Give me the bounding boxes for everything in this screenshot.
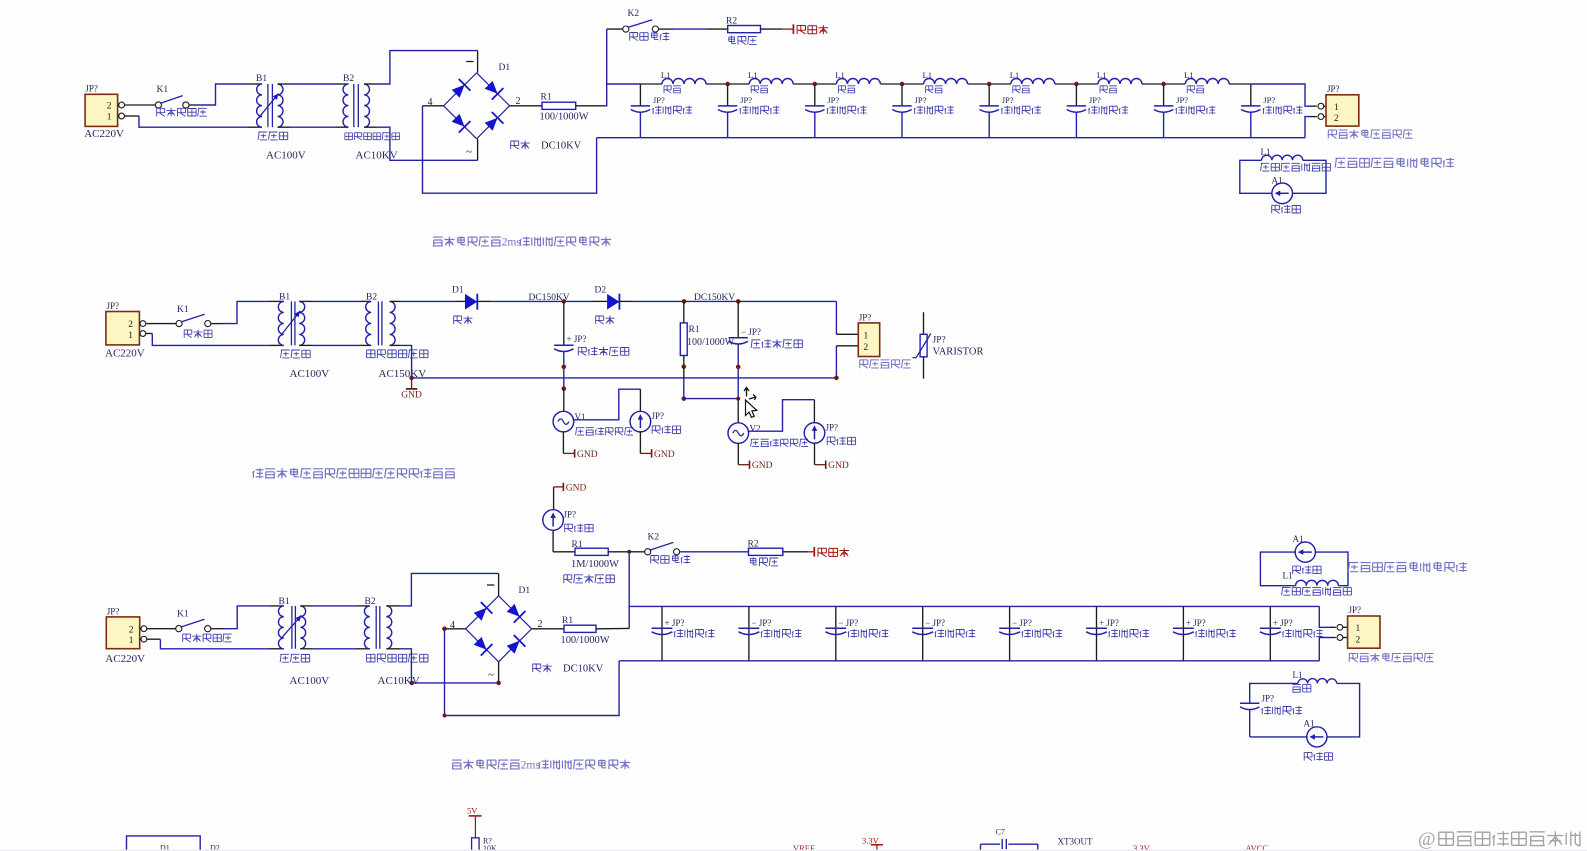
wire V1 to ammeter xyxy=(574,389,641,420)
wire to K2 xyxy=(629,551,645,553)
wire divider vertical to chain xyxy=(628,552,630,629)
wire B1 to B2 xyxy=(299,300,312,302)
wire JP? pin2 to K1 xyxy=(147,628,176,630)
bridge rectifier D1 (silicon stack DC10KV) xyxy=(444,73,477,106)
wire to V1 xyxy=(563,378,565,389)
svg-text:B2: B2 xyxy=(366,293,377,303)
pulse capacitor JP? (section1 cell 1) xyxy=(639,84,641,106)
pulse capacitor JP? (section1 cell 2) xyxy=(727,84,729,106)
wire JP? pin1 to B1 lower xyxy=(146,333,153,335)
svg-text:R1: R1 xyxy=(562,616,573,626)
svg-text:JP?: JP? xyxy=(915,95,927,105)
svg-text:B1: B1 xyxy=(279,597,290,607)
transformer B2 (isolated, AC10KV, section 3) xyxy=(364,606,369,649)
junction xyxy=(736,299,741,304)
annotation: connect ZnO varistor xyxy=(1328,130,1336,139)
connector JP? (to ZnO varistor, section 3) xyxy=(1343,626,1348,628)
wire JP? pin1 to B1 lower xyxy=(125,115,140,117)
wire B2 to bridge AC bottom xyxy=(386,648,400,650)
ammeter JP? (section 2 right) xyxy=(804,423,825,444)
coil L1 (damping loop) xyxy=(1250,683,1298,703)
ammeter A1 (section 3 measuring loop) xyxy=(1260,552,1295,586)
capacitive divider JP? xyxy=(563,301,565,344)
wire B1 to B2 xyxy=(278,83,290,85)
wire R1 to V2 node xyxy=(684,398,738,400)
svg-text:L1: L1 xyxy=(923,70,933,80)
inductor L1 (section1 cell 2) xyxy=(728,83,750,85)
wire chain to JP? output xyxy=(1251,84,1310,106)
svg-text:K1: K1 xyxy=(177,610,189,620)
svg-text:+ JP?: + JP? xyxy=(665,618,685,628)
svg-text:1: 1 xyxy=(129,636,134,646)
svg-text:L1: L1 xyxy=(661,70,671,80)
svg-text:− JP?: − JP? xyxy=(741,327,761,337)
RC divider capacitor JP? xyxy=(737,301,739,337)
pulse capacitor JP? (section3 cell 8) xyxy=(1269,606,1271,660)
wire cap bottom below rail xyxy=(737,378,739,399)
junction xyxy=(682,299,687,304)
svg-text:L1: L1 xyxy=(748,70,758,80)
resistor R? 10K (partial) xyxy=(472,838,480,851)
svg-text:+ JP?: + JP? xyxy=(1273,618,1293,628)
svg-text:R2: R2 xyxy=(726,17,737,27)
junction xyxy=(682,364,687,369)
wire B2 upper to D1 xyxy=(390,300,400,302)
junction xyxy=(736,397,740,401)
annotation: connect varistor xyxy=(860,360,868,369)
pulse capacitor JP? (section3 cell 3) xyxy=(835,606,837,660)
svg-text:AC100V: AC100V xyxy=(290,368,330,380)
inductor L1 (section1 cell 6) xyxy=(1076,83,1098,85)
svg-text:JP?: JP? xyxy=(1002,95,1014,105)
junction xyxy=(409,376,414,381)
svg-text:2: 2 xyxy=(1356,636,1361,646)
svg-text:1: 1 xyxy=(128,331,133,341)
svg-text:@: @ xyxy=(1418,829,1436,850)
svg-text:JP?: JP? xyxy=(107,606,120,616)
wire K1 to B1 upper xyxy=(211,628,224,630)
svg-text:AC100V: AC100V xyxy=(290,675,330,687)
wire JP? pin2 to K1 xyxy=(125,104,156,106)
wire rail to JP? output pins xyxy=(835,301,837,334)
svg-text:JP?: JP? xyxy=(1176,95,1188,105)
svg-text:+ JP?: + JP? xyxy=(567,334,587,344)
wire V2 to GND xyxy=(737,443,739,464)
svg-text:GND: GND xyxy=(566,484,587,494)
svg-text:− JP?: − JP? xyxy=(925,618,945,628)
svg-text:D1: D1 xyxy=(519,586,531,596)
svg-text:JP?: JP? xyxy=(652,411,665,421)
svg-text:− JP?: − JP? xyxy=(838,618,858,628)
svg-text:+ JP?: + JP? xyxy=(1186,618,1206,628)
wire B2 to bridge AC bottom xyxy=(364,126,376,128)
svg-text:R2: R2 xyxy=(748,539,759,549)
pulse capacitor JP? (section1 cell 8) xyxy=(1250,84,1252,106)
wire V2 to ammeter 2 xyxy=(749,400,815,432)
svg-text:L1: L1 xyxy=(1184,70,1194,80)
pulse capacitor JP? (section1 cell 4) xyxy=(901,84,903,106)
connector JP? (to ZnO varistor, section 1) xyxy=(1324,105,1326,107)
diode D1 silicon stack xyxy=(465,294,477,310)
svg-text:DC10KV: DC10KV xyxy=(563,664,604,675)
svg-text:AC220V: AC220V xyxy=(105,347,145,359)
wire JP? pin1 to B1 lower xyxy=(147,638,161,640)
wire bridge pin4 detour to chain bottom rail xyxy=(445,628,466,630)
svg-text:1: 1 xyxy=(864,332,869,342)
svg-text:JP?: JP? xyxy=(740,95,752,105)
wire B2 lower to GND junction xyxy=(390,344,400,346)
annotation: connect ZnO varistor (section 3) xyxy=(1349,653,1357,662)
wire D2 to JP?, net DC150KV xyxy=(619,300,632,302)
svg-text:JP?: JP? xyxy=(1263,95,1275,105)
resistor R2 water resistor (section 3) xyxy=(749,548,783,555)
wire chain feed xyxy=(607,83,641,85)
svg-text:AC100V: AC100V xyxy=(266,150,306,162)
svg-text:3.3V: 3.3V xyxy=(862,836,880,846)
svg-text:2: 2 xyxy=(864,343,869,353)
svg-text:GND: GND xyxy=(828,461,849,471)
wire B2 to bridge AC top xyxy=(364,83,376,85)
junction xyxy=(562,365,567,370)
resistor R1 100/1000W (divider) xyxy=(683,301,685,323)
junction xyxy=(900,82,905,87)
svg-text:100/1000W: 100/1000W xyxy=(561,635,610,646)
junction xyxy=(443,714,447,718)
pulse capacitor JP? (section3 cell 4) xyxy=(922,606,924,660)
wire V1 to GND xyxy=(562,432,564,454)
switch K1 (charge/discharge, section 3) xyxy=(176,626,182,632)
svg-text:JP?: JP? xyxy=(107,301,120,311)
transformer B2 (isolated, AC150KV) xyxy=(366,301,372,345)
wire K1 to B1 upper xyxy=(211,323,223,325)
svg-text:AC220V: AC220V xyxy=(105,653,145,665)
mouse cursor xyxy=(744,388,749,397)
varistor JP? symbol xyxy=(923,312,925,334)
inductor L1 (section1 cell 7) xyxy=(1164,83,1186,85)
earth rod terminal xyxy=(761,28,783,30)
svg-text:2: 2 xyxy=(1334,114,1339,124)
junction xyxy=(562,299,567,304)
svg-text:K1: K1 xyxy=(177,305,189,315)
svg-text:R1: R1 xyxy=(689,325,700,335)
svg-text:K1: K1 xyxy=(157,85,169,95)
wire K2 to R2 xyxy=(659,28,674,30)
svg-text:JP?: JP? xyxy=(933,336,946,346)
svg-text:1: 1 xyxy=(1356,624,1361,634)
svg-text:2ms: 2ms xyxy=(502,236,522,249)
junction xyxy=(1161,82,1166,87)
bottom edge strip xyxy=(0,850,1587,851)
wire ammeter to R1 xyxy=(552,530,554,552)
svg-text:K2: K2 xyxy=(628,9,640,19)
junction xyxy=(410,681,415,686)
svg-text:DC10KV: DC10KV xyxy=(541,141,582,152)
svg-text:− JP?: − JP? xyxy=(751,618,771,628)
annotation: measure HV line current (section 3) xyxy=(1348,563,1358,572)
switch K1 (contactor) xyxy=(176,321,182,327)
transformer B2 (isolated, AC10KV) xyxy=(343,84,348,127)
resistor R1 100/1000W (section 3) xyxy=(532,628,564,630)
svg-text:L1: L1 xyxy=(1283,571,1293,581)
pulse capacitor JP? (section1 cell 6) xyxy=(1075,84,1077,106)
section 3 chain top rail xyxy=(629,605,1319,607)
wire B2 to bridge AC top xyxy=(386,605,400,607)
junction xyxy=(1074,82,1079,87)
section 3 chain bottom rail xyxy=(619,660,1319,662)
svg-text:L1: L1 xyxy=(1010,70,1020,80)
svg-text:− JP?: − JP? xyxy=(1012,618,1032,628)
svg-text:AC10KV: AC10KV xyxy=(378,675,420,687)
resistor R1 100/1000W xyxy=(510,105,542,107)
junction xyxy=(562,386,567,391)
svg-text:R1: R1 xyxy=(541,93,552,103)
pulse capacitor JP? (section3 cell 5) xyxy=(1009,606,1011,660)
svg-text:JP?: JP? xyxy=(1089,95,1101,105)
earth rod terminal (section 3) xyxy=(783,551,808,553)
pulse capacitor JP? (section1 cell 5) xyxy=(988,84,990,106)
power port GND below B2 xyxy=(411,378,413,389)
svg-text:K2: K2 xyxy=(648,533,660,543)
power port GND below V1 xyxy=(563,452,574,454)
pulse capacitor JP? (section3 cell 2) xyxy=(748,606,750,660)
transformer B1 (regulator, AC100V, section 3) xyxy=(278,606,283,649)
svg-text:JP?: JP? xyxy=(859,312,872,322)
svg-text:B2: B2 xyxy=(343,74,354,84)
svg-text:GND: GND xyxy=(577,450,598,460)
ammeter JP? (section 2 left) xyxy=(630,411,651,432)
ammeter A1 (section 1) xyxy=(1272,183,1293,204)
inductor L1 (section1 cell 3) xyxy=(815,83,837,85)
svg-text:C7: C7 xyxy=(996,828,1005,837)
connector JP? (AC220V input, section 1) xyxy=(85,94,118,126)
pulse capacitor JP? (damping loop) xyxy=(1240,702,1259,704)
wire R1 to K2 vertical xyxy=(605,29,607,106)
wire D1 to D2, net DC150KV xyxy=(477,300,490,302)
junction xyxy=(987,82,992,87)
inductor L1 (section1 cell 1) xyxy=(640,83,662,85)
svg-text:GND: GND xyxy=(401,391,422,401)
wire ammeter2 to GND xyxy=(814,443,816,465)
svg-text:D2: D2 xyxy=(595,286,607,296)
svg-text:L1: L1 xyxy=(1097,70,1107,80)
transformer B1 (regulator, AC100V) xyxy=(257,84,262,127)
svg-text:100/1000W: 100/1000W xyxy=(540,112,589,123)
section 2 annotation xyxy=(253,468,264,478)
svg-text:JP?: JP? xyxy=(653,95,665,105)
junction xyxy=(442,627,447,632)
chain bottom rail xyxy=(597,137,1305,139)
wire R1 bottom below rail xyxy=(683,378,685,399)
component box (partial, bottom edge) xyxy=(127,836,201,851)
svg-text:D1: D1 xyxy=(499,63,511,73)
AC source V2 (matching unit) xyxy=(737,399,739,423)
junction xyxy=(725,82,730,87)
svg-text:~: ~ xyxy=(466,146,472,158)
svg-text:D1: D1 xyxy=(452,286,464,296)
section 3 title xyxy=(452,760,462,769)
wire B1 to B2 xyxy=(300,605,313,607)
wire ammeter to GND xyxy=(639,432,641,454)
junction xyxy=(627,550,631,554)
transformer B1 (regulator, AC100V, section 2) xyxy=(278,301,284,345)
svg-text:1: 1 xyxy=(1334,103,1339,113)
svg-text:V1: V1 xyxy=(575,412,586,422)
svg-text:JP?: JP? xyxy=(826,423,839,433)
Rogowski coil L1 (section 3 measuring loop) xyxy=(1296,580,1339,585)
svg-text:AC220V: AC220V xyxy=(84,128,124,140)
svg-text:L1: L1 xyxy=(835,70,845,80)
wire K2 to R2 xyxy=(680,551,749,553)
Rogowski coil L1 (section 1 measuring loop) xyxy=(1240,160,1272,193)
junction xyxy=(682,396,687,401)
svg-text:A1: A1 xyxy=(1272,176,1283,186)
svg-text:100/1000W: 100/1000W xyxy=(687,337,735,348)
pulse capacitor JP? (section1 cell 3) xyxy=(814,84,816,106)
svg-text:V2: V2 xyxy=(750,424,761,434)
svg-text:B1: B1 xyxy=(256,74,267,84)
resistor R1 1M/1000W (divider) xyxy=(575,548,608,555)
svg-text:GND: GND xyxy=(654,450,675,460)
svg-text:A1: A1 xyxy=(1304,719,1315,729)
svg-text:A1: A1 xyxy=(1293,534,1304,544)
wire bridge pin4 detour to chain bottom rail xyxy=(423,105,444,107)
svg-text:L1: L1 xyxy=(1261,147,1271,157)
svg-text:DC150KV: DC150KV xyxy=(694,293,735,303)
junction xyxy=(736,365,741,370)
svg-text:JP?: JP? xyxy=(1262,693,1275,703)
svg-text:+ JP?: + JP? xyxy=(1099,618,1119,628)
power port GND below ammeter xyxy=(640,452,651,454)
power port GND (section 3 top) xyxy=(553,487,555,510)
svg-text:2ms: 2ms xyxy=(521,759,541,772)
diode D2 silicon stack xyxy=(607,294,619,310)
svg-text:2: 2 xyxy=(129,625,134,635)
pulse capacitor JP? (section3 cell 1) xyxy=(661,606,663,660)
svg-text:1M/1000W: 1M/1000W xyxy=(571,559,619,570)
bridge rectifier D1 (silicon stack DC10KV, section 3) xyxy=(466,596,499,629)
svg-text:JP?: JP? xyxy=(85,84,98,94)
annotation: measure HV line current xyxy=(1335,158,1345,167)
svg-text:GND: GND xyxy=(752,461,773,471)
svg-text:JP?: JP? xyxy=(1327,84,1340,94)
svg-text:R1: R1 xyxy=(572,540,583,550)
connector JP? (to varistor, section 2) xyxy=(858,323,879,357)
pulse capacitor JP? (section3 cell 7) xyxy=(1182,606,1184,660)
pulse capacitor JP? (section3 cell 6) xyxy=(1096,606,1098,660)
svg-text:1: 1 xyxy=(107,112,112,122)
section 1 title xyxy=(433,237,443,246)
AC source V1 (matching unit) xyxy=(553,411,574,432)
svg-text:VARISTOR: VARISTOR xyxy=(933,347,984,358)
connector JP? (AC220V input, section 3) xyxy=(106,617,139,649)
svg-text:B2: B2 xyxy=(365,597,376,607)
inductor L1 (section1 cell 5) xyxy=(989,83,1011,85)
inductor L1 (section1 cell 4) xyxy=(902,83,924,85)
pulse capacitor JP? (section1 cell 7) xyxy=(1163,84,1165,106)
power port GND below ammeter 2 xyxy=(815,464,826,466)
switch K2 (ground gap, section 3) xyxy=(645,549,651,555)
svg-text:2: 2 xyxy=(128,320,133,330)
wire JP? pin2 to K1 xyxy=(146,323,176,325)
ammeter JP? (section 3 divider) xyxy=(543,510,564,531)
resistor R2 water resistor xyxy=(728,26,761,33)
svg-text:5V: 5V xyxy=(467,806,478,816)
svg-text:JP?: JP? xyxy=(564,509,577,519)
svg-text:~: ~ xyxy=(488,669,494,681)
power port GND below V2 xyxy=(738,464,749,466)
junction xyxy=(813,82,818,87)
svg-text:JP?: JP? xyxy=(1349,605,1362,615)
svg-text:XT3OUT: XT3OUT xyxy=(1058,837,1093,847)
connector JP? (AC220V input, section 2) xyxy=(106,312,139,345)
switch K1 (charge/discharge) xyxy=(155,102,161,108)
junction xyxy=(496,681,501,686)
wire chain to JP? output xyxy=(1319,606,1330,627)
switch K2 (ground gap) xyxy=(607,28,623,30)
ammeter A1 (damping loop) xyxy=(1250,736,1307,738)
svg-text:B1: B1 xyxy=(279,293,290,303)
capacitor C7 (partial) xyxy=(981,843,1001,845)
svg-text:JP?: JP? xyxy=(827,95,839,105)
wire K1 to B1 upper xyxy=(189,104,200,106)
section 2 bottom rail xyxy=(412,377,837,379)
svg-text:2: 2 xyxy=(107,102,112,112)
svg-text:L1: L1 xyxy=(1293,670,1303,680)
